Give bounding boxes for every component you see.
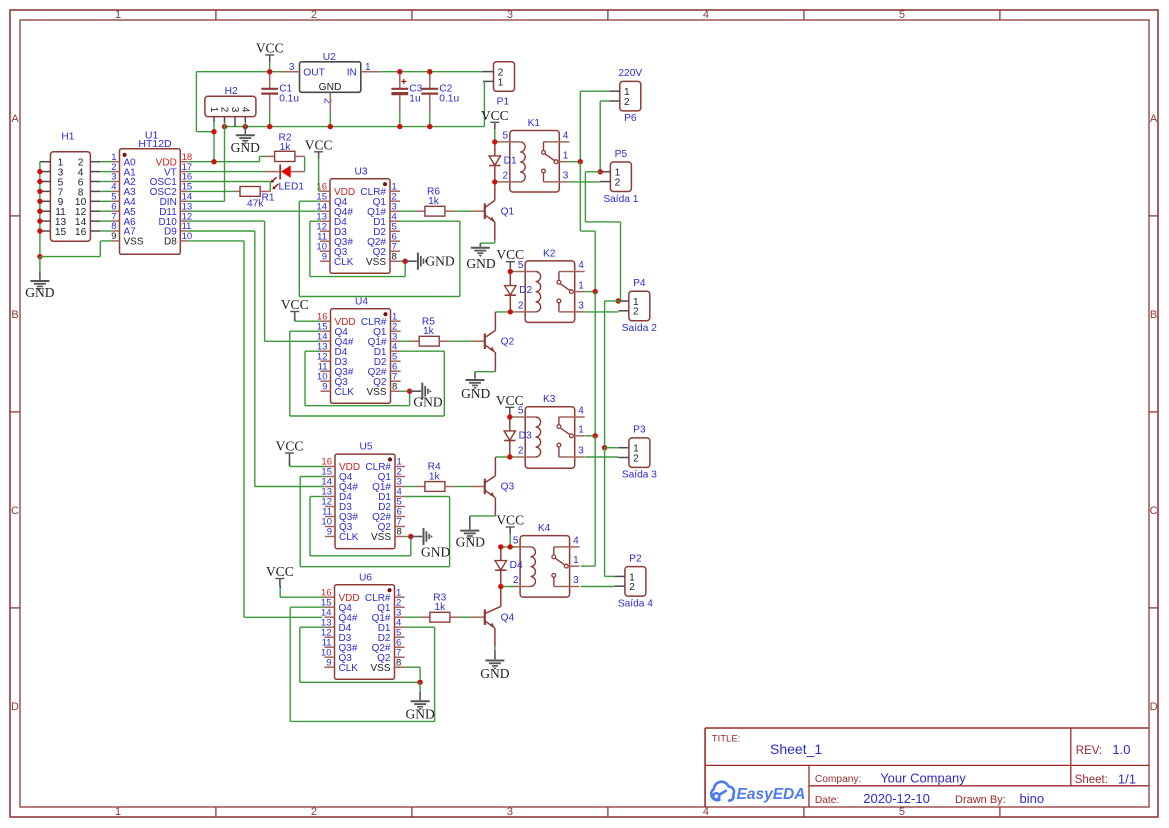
svg-text:D: D xyxy=(1150,701,1158,713)
svg-text:1u: 1u xyxy=(409,94,420,105)
svg-text:1: 1 xyxy=(208,107,219,113)
svg-text:Drawn By:: Drawn By: xyxy=(955,794,1006,806)
svg-text:B: B xyxy=(11,309,18,321)
svg-text:47k: 47k xyxy=(247,199,264,210)
svg-text:2: 2 xyxy=(513,575,519,586)
svg-text:IN: IN xyxy=(347,68,357,79)
svg-text:1k: 1k xyxy=(429,471,441,482)
svg-text:2: 2 xyxy=(633,307,639,318)
svg-text:OUT: OUT xyxy=(303,68,325,79)
svg-text:D: D xyxy=(11,701,19,713)
svg-text:GND: GND xyxy=(405,707,434,722)
svg-text:Saída 1: Saída 1 xyxy=(603,194,638,205)
svg-text:Q4: Q4 xyxy=(501,612,515,623)
svg-text:VCC: VCC xyxy=(266,564,294,579)
svg-text:2: 2 xyxy=(518,300,524,311)
svg-text:1k: 1k xyxy=(423,326,435,337)
svg-text:Your Company: Your Company xyxy=(880,770,966,785)
svg-text:5: 5 xyxy=(513,535,519,546)
svg-text:GND: GND xyxy=(421,544,450,559)
svg-text:3: 3 xyxy=(578,446,584,457)
svg-text:2: 2 xyxy=(633,453,639,464)
svg-text:U4: U4 xyxy=(355,296,368,307)
svg-text:VCC: VCC xyxy=(276,439,304,454)
svg-text:VCC: VCC xyxy=(256,41,284,56)
svg-text:220V: 220V xyxy=(618,68,642,79)
svg-text:3: 3 xyxy=(573,575,579,586)
svg-text:9: 9 xyxy=(326,657,331,668)
svg-text:K3: K3 xyxy=(543,394,556,405)
svg-text:Sheet_1: Sheet_1 xyxy=(770,741,822,757)
svg-text:REV:: REV: xyxy=(1076,745,1102,757)
svg-text:+: + xyxy=(401,77,407,88)
svg-text:Saída 2: Saída 2 xyxy=(622,323,657,334)
svg-text:P6: P6 xyxy=(624,113,637,124)
svg-text:Q1: Q1 xyxy=(501,206,515,217)
svg-text:VSS: VSS xyxy=(370,663,390,674)
svg-text:2: 2 xyxy=(518,446,524,457)
svg-text:A: A xyxy=(11,113,19,125)
svg-text:P4: P4 xyxy=(633,278,646,289)
svg-text:D2: D2 xyxy=(519,285,532,296)
svg-text:VCC: VCC xyxy=(481,108,509,123)
svg-text:1: 1 xyxy=(115,9,121,21)
svg-text:D1: D1 xyxy=(504,156,517,167)
svg-text:P1: P1 xyxy=(497,97,510,108)
svg-text:D3: D3 xyxy=(519,431,532,442)
svg-text:2: 2 xyxy=(311,9,317,21)
svg-text:2: 2 xyxy=(311,806,317,818)
svg-text:GND: GND xyxy=(25,285,54,300)
svg-text:4: 4 xyxy=(573,535,579,546)
svg-text:U5: U5 xyxy=(359,442,372,453)
svg-text:2020-12-10: 2020-12-10 xyxy=(863,791,930,806)
svg-text:GND: GND xyxy=(466,256,495,271)
svg-text:5: 5 xyxy=(899,9,905,21)
svg-text:2: 2 xyxy=(629,582,635,593)
svg-text:1: 1 xyxy=(498,77,504,88)
svg-text:A: A xyxy=(1150,113,1158,125)
svg-text:CLK: CLK xyxy=(339,663,359,674)
svg-text:1.0: 1.0 xyxy=(1112,742,1130,757)
svg-text:H2: H2 xyxy=(225,86,238,97)
svg-text:9: 9 xyxy=(327,527,332,538)
svg-text:EasyEDA: EasyEDA xyxy=(737,786,806,803)
svg-text:1: 1 xyxy=(563,151,569,162)
svg-text:GND: GND xyxy=(461,386,490,401)
svg-text:1k: 1k xyxy=(434,602,446,613)
svg-text:Q2: Q2 xyxy=(501,336,515,347)
svg-text:C: C xyxy=(1150,505,1158,517)
svg-text:9: 9 xyxy=(322,381,327,392)
svg-text:2: 2 xyxy=(624,97,630,108)
svg-text:HT12D: HT12D xyxy=(138,138,172,150)
svg-text:4: 4 xyxy=(240,107,251,113)
svg-text:1k: 1k xyxy=(428,196,440,207)
svg-text:2: 2 xyxy=(503,170,509,181)
svg-text:4: 4 xyxy=(703,9,709,21)
svg-text:U6: U6 xyxy=(359,572,372,583)
svg-text:GND: GND xyxy=(413,395,442,410)
svg-text:1/1: 1/1 xyxy=(1118,771,1136,786)
svg-text:K1: K1 xyxy=(528,118,541,129)
svg-text:VSS: VSS xyxy=(366,257,386,268)
svg-text:3: 3 xyxy=(507,9,513,21)
svg-text:3: 3 xyxy=(578,300,584,311)
svg-text:C: C xyxy=(11,505,19,517)
svg-text:5: 5 xyxy=(899,806,905,818)
svg-text:VCC: VCC xyxy=(305,137,333,152)
svg-text:1k: 1k xyxy=(280,142,292,153)
svg-text:8: 8 xyxy=(392,251,397,262)
svg-text:3: 3 xyxy=(229,107,240,113)
svg-text:VCC: VCC xyxy=(496,393,524,408)
svg-text:3: 3 xyxy=(563,170,569,181)
svg-text:CLK: CLK xyxy=(339,532,359,543)
svg-text:2: 2 xyxy=(615,178,621,189)
svg-text:H1: H1 xyxy=(61,132,74,143)
svg-text:GND: GND xyxy=(425,253,454,268)
svg-text:P5: P5 xyxy=(615,149,628,160)
svg-text:9: 9 xyxy=(111,231,116,242)
svg-text:B: B xyxy=(1150,309,1157,321)
svg-text:P2: P2 xyxy=(629,553,642,564)
svg-text:Saída 3: Saída 3 xyxy=(622,470,657,481)
svg-text:Company:: Company: xyxy=(815,774,861,785)
svg-text:4: 4 xyxy=(578,406,584,417)
svg-text:Date:: Date: xyxy=(815,795,839,806)
svg-text:VCC: VCC xyxy=(496,513,524,528)
svg-text:9: 9 xyxy=(322,251,327,262)
svg-text:Saída 4: Saída 4 xyxy=(618,598,653,609)
svg-text:0.1u: 0.1u xyxy=(279,94,299,105)
svg-text:8: 8 xyxy=(397,527,402,538)
svg-text:R1: R1 xyxy=(262,192,275,203)
svg-text:1: 1 xyxy=(573,555,579,566)
svg-text:K4: K4 xyxy=(538,523,551,534)
svg-text:CLK: CLK xyxy=(335,387,355,398)
svg-text:VCC: VCC xyxy=(281,297,309,312)
svg-text:VCC: VCC xyxy=(496,247,524,262)
svg-text:LED1: LED1 xyxy=(279,182,305,193)
svg-text:1: 1 xyxy=(578,280,584,291)
svg-text:D4: D4 xyxy=(510,560,523,571)
svg-text:16: 16 xyxy=(75,227,87,238)
svg-text:VSS: VSS xyxy=(124,237,144,248)
svg-text:Sheet:: Sheet: xyxy=(1075,774,1108,786)
svg-text:U2: U2 xyxy=(323,52,336,63)
svg-text:8: 8 xyxy=(396,657,401,668)
svg-text:D8: D8 xyxy=(164,237,177,248)
svg-text:8: 8 xyxy=(392,381,397,392)
svg-text:1: 1 xyxy=(578,425,584,436)
svg-text:GND: GND xyxy=(456,535,485,550)
svg-text:GND: GND xyxy=(231,140,260,155)
svg-text:VSS: VSS xyxy=(371,532,391,543)
svg-text:4: 4 xyxy=(703,806,709,818)
svg-text:15: 15 xyxy=(55,227,67,238)
svg-text:4: 4 xyxy=(563,130,569,141)
svg-text:U3: U3 xyxy=(354,166,367,177)
svg-text:4: 4 xyxy=(578,260,584,271)
svg-text:3: 3 xyxy=(507,806,513,818)
svg-text:2: 2 xyxy=(219,107,230,113)
svg-text:5: 5 xyxy=(503,130,509,141)
svg-text:GND: GND xyxy=(480,666,509,681)
svg-text:TITLE:: TITLE: xyxy=(712,734,741,745)
svg-text:P3: P3 xyxy=(633,425,646,436)
svg-text:0.1u: 0.1u xyxy=(439,94,459,105)
svg-text:GND: GND xyxy=(319,82,342,93)
svg-text:VSS: VSS xyxy=(366,387,386,398)
svg-text:1: 1 xyxy=(115,806,121,818)
svg-text:K2: K2 xyxy=(543,248,556,259)
svg-text:CLK: CLK xyxy=(334,257,354,268)
svg-text:bino: bino xyxy=(1020,791,1045,806)
svg-text:Q3: Q3 xyxy=(501,482,515,493)
